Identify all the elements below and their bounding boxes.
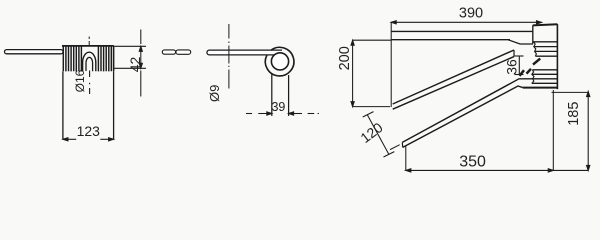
svg-text:350: 350	[459, 154, 486, 171]
left view: wire cross-over arch in coil middle	[83, 52, 96, 71]
right view: arm bend into coil	[508, 40, 533, 44]
middle view: vertical centre line through mounting	[228, 24, 230, 89]
middle view: break dash 2 of top arm	[176, 50, 191, 54]
svg-text:36: 36	[504, 59, 520, 75]
svg-text:123: 123	[77, 123, 101, 139]
svg-text:39: 39	[271, 100, 285, 114]
svg-text:390: 390	[459, 6, 483, 22]
left view: straight top arm of tine	[5, 50, 64, 54]
dimension 123	[63, 138, 114, 141]
middle view: top arm bar	[207, 50, 282, 55]
right view: top arm bar	[391, 31, 533, 39]
left view: centre line stub above coil	[88, 37, 90, 46]
left view: coil body with winding hatch	[62, 46, 114, 72]
right view: wire hook at coil front	[520, 59, 541, 76]
left view: left leg of tine	[62, 71, 64, 139]
right view: coil block top edge	[533, 24, 558, 25]
svg-text:Ø16: Ø16	[73, 69, 87, 92]
dimension 39 with horizontal centre line	[246, 112, 319, 115]
middle view: break dash 1 of top arm	[162, 50, 175, 54]
right view: extension line at arm end / upper prong tip	[390, 22, 392, 107]
right view: upper prong (straight, double line)	[393, 50, 514, 109]
svg-text:185: 185	[566, 102, 582, 126]
left view: centre dash-dot line below arch	[89, 71, 91, 95]
right view: dimension 350	[406, 169, 588, 172]
right view: dimension 36	[515, 56, 524, 75]
middle view: coil loop inner circle	[271, 53, 288, 70]
middle view: rear leg line	[288, 75, 290, 116]
right view: lower winding lines	[532, 70, 558, 84]
right view: lower prong (straight, double line)	[402, 79, 532, 148]
right view: dimension 185	[587, 92, 590, 171]
right view: extension line from coil bottom to 350	[552, 90, 554, 170]
svg-text:200: 200	[337, 46, 353, 70]
dimension 42	[114, 30, 146, 97]
svg-text:Ø9: Ø9	[207, 85, 222, 102]
right view: coil block bottom edge	[523, 87, 558, 89]
right view: dimension 120 (oblique)	[363, 112, 400, 157]
right view: coil block left edge upper	[532, 25, 534, 43]
right view: coil block right edge	[556, 24, 558, 89]
right view: upper winding lines	[534, 42, 558, 56]
middle view: front leg line	[271, 74, 273, 116]
middle view: coil loop outer circle	[265, 47, 294, 76]
right view: dimension 390	[391, 21, 541, 24]
right view: extension line at lower prong tip	[405, 147, 407, 171]
left view: right leg of tine	[113, 71, 115, 139]
right view: dimension 200	[351, 40, 391, 106]
right view: extension line for 185 top	[552, 91, 589, 93]
svg-text:42: 42	[127, 57, 143, 73]
